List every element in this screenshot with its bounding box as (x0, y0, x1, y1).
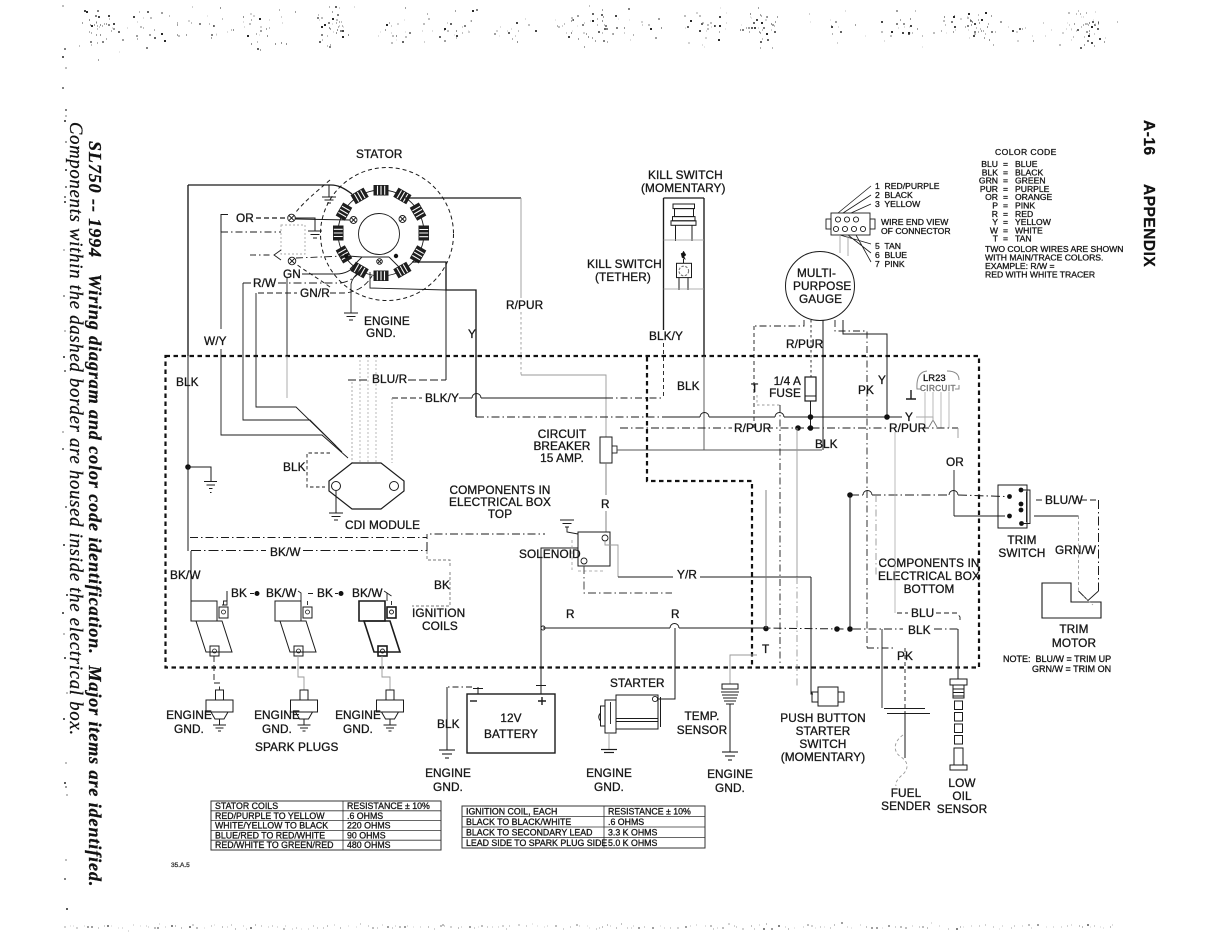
svg-text:220 OHMS: 220 OHMS (347, 821, 391, 831)
svg-text:R/W: R/W (253, 276, 277, 290)
svg-text:SL750 -- 1994 Wiring diagram: SL750 -- 1994 Wiring diagram and color c… (85, 141, 105, 887)
ENGINE GND. plug2 (254, 708, 300, 736)
stator coils (12) (333, 185, 429, 281)
svg-text:SENSOR: SENSOR (677, 723, 727, 737)
wire BLK down from stator (left) (187, 185, 189, 356)
fuel sender connection bars (884, 709, 930, 714)
spark plug 3 (377, 690, 404, 731)
wire R/PUR drop right (957, 428, 959, 438)
CDI module body (329, 463, 404, 509)
wire node to node inside stator (348, 256, 362, 257)
TOP MIDDLE: kill switch, gauge, connector, color code (506, 147, 1123, 648)
svg-text:Y: Y (878, 373, 886, 387)
stator coil ring (338, 190, 424, 276)
TRIM MOTOR label (1052, 622, 1096, 650)
svg-text:BLK: BLK (437, 717, 460, 731)
multi purpose gauge (786, 252, 855, 321)
svg-text:=: = (1003, 234, 1008, 244)
bracket group1 (222, 591, 301, 605)
wire Y/R from solenoid (605, 541, 618, 577)
wire BK/W upper dash-dot (190, 534, 545, 538)
STATOR GROUP (188, 147, 521, 417)
svg-text:BLU/R: BLU/R (372, 372, 407, 386)
svg-text:BLU: BLU (911, 606, 934, 620)
wire GRN/W (1034, 515, 1079, 517)
wire BLK down to bus (849, 495, 851, 629)
svg-text:STARTER: STARTER (610, 676, 665, 690)
wire pin2 to stator node (296, 256, 344, 258)
R/PUR bus dots (795, 425, 801, 431)
BK / BK/W group 1 (231, 586, 297, 600)
svg-text:STATOR COILS: STATOR COILS (215, 801, 278, 811)
svg-text:.6 OHMS: .6 OHMS (347, 811, 383, 821)
svg-text:SENDER: SENDER (881, 799, 931, 813)
svg-text:(TETHER): (TETHER) (595, 270, 651, 284)
MARGIN TEXT (65, 120, 1157, 887)
svg-text:PUSH BUTTON: PUSH BUTTON (780, 711, 865, 725)
OR junction dot (847, 492, 853, 498)
svg-text:R: R (566, 607, 575, 621)
wire fuse to Y bus (810, 401, 812, 428)
svg-text:TAN: TAN (1015, 234, 1032, 244)
svg-text:OR: OR (946, 455, 964, 469)
OR connector bracket (221, 215, 228, 233)
svg-text:COLOR CODE: COLOR CODE (995, 147, 1057, 157)
ENGINE GND. temp (707, 767, 753, 795)
ENGINE GND. starter (586, 766, 632, 794)
wire W/Y vertical (220, 232, 222, 356)
RIGHT SIDE (881, 485, 1111, 816)
TRIM SWITCH label (998, 533, 1045, 560)
wire PK from gauge (835, 320, 867, 648)
ignition coil 3 (359, 593, 400, 656)
connector pin labels 5-7 (875, 241, 907, 269)
svg-text:R/PUR: R/PUR (889, 421, 926, 435)
svg-text:BATTERY: BATTERY (484, 727, 538, 741)
stator outer dashed housing (321, 168, 454, 301)
wire R/PUR bus (620, 427, 958, 429)
push button switch body (812, 687, 844, 706)
wire Y from stator right (412, 262, 476, 417)
bracket group2 (308, 591, 387, 601)
wire pin1 to ground (295, 218, 315, 231)
wire BK/W row (191, 538, 427, 551)
connector body (wire end view) (826, 213, 875, 235)
battery plus sign (538, 697, 546, 705)
wire R/W vertical (242, 283, 244, 356)
LR23 wires down (925, 392, 949, 428)
wire R/PUR to breaker (521, 375, 606, 437)
svg-text:SOLENOID: SOLENOID (519, 547, 581, 561)
connector pin 1 (288, 214, 296, 222)
svg-text:3.3 K OHMS: 3.3 K OHMS (608, 828, 658, 838)
engine ground below stator (344, 313, 358, 320)
svg-text:T: T (751, 381, 758, 395)
PUSH BUTTON STARTER SWITCH label (780, 711, 865, 764)
svg-text:BK/W: BK/W (352, 586, 383, 600)
wire R/PUR vertical from stator (520, 198, 522, 298)
svg-text:OF CONNECTOR: OF CONNECTOR (881, 226, 951, 236)
svg-text:ENGINE: ENGINE (707, 767, 753, 781)
fuel sender float wave (895, 735, 907, 786)
wire GN/R vertical (255, 293, 257, 356)
svg-text:PURPOSE: PURPOSE (793, 279, 851, 293)
ignition coil resistance table (462, 806, 705, 848)
junction dot group2 (339, 591, 344, 596)
wire battery plus up to solenoid (541, 548, 578, 684)
svg-text:MULTI-: MULTI- (797, 266, 836, 280)
wire Y from gauge (843, 320, 887, 417)
svg-text:TEMP.: TEMP. (684, 709, 719, 723)
svg-text:ENGINE: ENGINE (586, 766, 632, 780)
svg-text:GRN/W: GRN/W (1055, 543, 1097, 557)
svg-text:5.0 K OHMS: 5.0 K OHMS (608, 838, 658, 848)
trim switch contact bracket (1021, 490, 1030, 524)
solenoid ground (560, 520, 578, 534)
CDI mount hole right (390, 482, 399, 491)
svg-text:GND.: GND. (174, 722, 204, 736)
svg-text:TRIM: TRIM (1007, 533, 1036, 547)
svg-text:SWITCH: SWITCH (998, 546, 1045, 560)
svg-text:GAUGE: GAUGE (799, 292, 842, 306)
svg-text:SWITCH: SWITCH (799, 737, 846, 751)
svg-text:90 OHMS: 90 OHMS (347, 830, 386, 840)
svg-text:ENGINE: ENGINE (335, 708, 381, 722)
spark plug 1 (206, 690, 233, 731)
wire T to temp sensor (730, 655, 757, 684)
LOW OIL SENSOR label (937, 776, 987, 816)
svg-text:BLK: BLK (815, 437, 838, 451)
svg-text:A-16: A-16 (1140, 120, 1157, 156)
svg-text:LEAD SIDE TO SPARK PLUG SIDE: LEAD SIDE TO SPARK PLUG SIDE (466, 838, 607, 848)
WIRE END VIEW OF CONNECTOR label (881, 217, 951, 236)
svg-text:KILL SWITCH: KILL SWITCH (587, 257, 662, 271)
battery plus terminal (536, 684, 546, 694)
stator pin right (399, 216, 406, 223)
wire GN/R to CDI (256, 356, 336, 446)
svg-text:BLACK TO SECONDARY LEAD: BLACK TO SECONDARY LEAD (466, 828, 592, 838)
R bus dots (763, 626, 769, 632)
stator housing tail to connector (296, 180, 330, 212)
wire battery minus to ground (447, 686, 472, 688)
wire R/PUR down to bus (753, 326, 755, 428)
circuit breaker body (600, 437, 612, 463)
stator coils resistance table (211, 801, 441, 850)
svg-text:W/Y: W/Y (204, 334, 227, 348)
wire riser vertical mid (765, 490, 767, 628)
svg-text:ENGINE: ENGINE (254, 708, 300, 722)
ground temp sensor (722, 752, 738, 760)
svg-text:RED/WHITE TO GREEN/RED: RED/WHITE TO GREEN/RED (215, 840, 333, 850)
svg-text:ELECTRICAL BOX: ELECTRICAL BOX (878, 569, 980, 583)
connector pin leaders top (838, 186, 871, 213)
wire T dashed (757, 395, 780, 405)
ELECTRICAL BOX (166, 290, 1006, 712)
svg-text:T: T (993, 234, 999, 244)
wire BLK/Y bus (392, 397, 422, 399)
wire BLK kill switch into box (617, 356, 822, 450)
CDI ground stub (335, 491, 337, 513)
svg-text:CDI MODULE: CDI MODULE (345, 518, 420, 532)
wire into chevron (250, 254, 272, 256)
ignition coil 1 (191, 591, 232, 656)
svg-text:OIL: OIL (952, 789, 972, 803)
electrical box internal divider (647, 357, 752, 667)
svg-text:LR23: LR23 (923, 373, 946, 384)
wire R/W (243, 268, 362, 283)
junction dot BLK lower (847, 626, 853, 632)
svg-text:RESISTANCE ± 10%: RESISTANCE ± 10% (608, 807, 691, 817)
spark plug 2 (291, 690, 318, 731)
svg-text:GND.: GND. (262, 722, 292, 736)
svg-text:MOTOR: MOTOR (1052, 636, 1096, 650)
wire BLU (894, 432, 896, 613)
wire Y/R (618, 576, 811, 578)
wire fuel sender feed (881, 629, 883, 708)
wire Y/R down to push button (811, 577, 813, 694)
engine ground stub near stator top (322, 185, 336, 203)
chevron into connector (274, 250, 281, 260)
wire BLK/Y dashed down (663, 343, 665, 398)
node dot left (344, 254, 348, 258)
wire BLK continues to junction (187, 356, 189, 467)
wire GN/R (258, 276, 372, 293)
svg-text:COMPONENTS IN: COMPONENTS IN (879, 556, 980, 570)
KILL SWITCH (TETHER) label (587, 257, 662, 284)
wire junction to ground (188, 467, 211, 481)
svg-text:GND.: GND. (433, 780, 463, 794)
wire R/PUR from stator top right (405, 197, 521, 199)
wire stator top-left (188, 185, 352, 194)
electrical box dashed border (166, 356, 980, 668)
wire down from R/PUR dot (796, 428, 798, 577)
fuel sender wire down (904, 712, 906, 758)
wire BLK bus lower (853, 628, 958, 630)
battery minus terminal (473, 687, 483, 694)
svg-text:BLACK TO BLACK/WHITE: BLACK TO BLACK/WHITE (466, 817, 571, 827)
trim switch pins (1007, 488, 1024, 526)
wire W/Y horizontal (221, 231, 281, 233)
svg-text:480 OHMS: 480 OHMS (347, 840, 391, 850)
svg-text:FUSE: FUSE (769, 386, 801, 400)
harness exit funnel (350, 257, 401, 269)
wire BLK down to BK/W row (187, 467, 189, 551)
wire W/Y to CDI (221, 356, 348, 458)
ground in box left (204, 482, 217, 493)
svg-text:GND.: GND. (366, 326, 396, 340)
CDI mount hole left (332, 482, 341, 491)
svg-text:SENSOR: SENSOR (937, 802, 987, 816)
wire harness drop (370, 272, 446, 290)
12V battery (467, 694, 555, 753)
1/4 A FUSE label (769, 374, 801, 400)
wire GN vertical (286, 278, 288, 356)
wire Y-BLU/R riser (445, 290, 447, 380)
wire breaker to solenoid (605, 463, 607, 532)
trim motor body (1042, 583, 1101, 618)
svg-text:3 YELLOW: 3 YELLOW (875, 199, 921, 209)
wire OR lower to trim switch (954, 515, 1005, 517)
wire to engine ground below stator (351, 268, 362, 313)
svg-text:GRN/W = TRIM ON: GRN/W = TRIM ON (1032, 664, 1111, 674)
svg-text:PK: PK (858, 383, 874, 397)
svg-text:12V: 12V (500, 711, 521, 725)
wire riser dash-dot to push button (796, 577, 798, 687)
svg-text:15 AMP.: 15 AMP. (540, 451, 584, 465)
ground battery (439, 750, 455, 758)
svg-text:STATOR: STATOR (356, 147, 402, 161)
wire OR vertical (953, 470, 955, 516)
wire R bus (543, 627, 758, 629)
wires dotted into CDI top (360, 356, 376, 463)
svg-text:NOTE: BLU/W = TRIM UP: NOTE: BLU/W = TRIM UP (1003, 654, 1111, 664)
ENGINE GND. battery (425, 766, 471, 794)
svg-text:R/PUR: R/PUR (506, 298, 543, 312)
COMPONENTS IN ELECTRICAL BOX BOTTOM label (878, 556, 980, 596)
svg-text:LOW: LOW (948, 776, 976, 790)
wire pin1 to stator pin (295, 219, 350, 220)
COMPONENTS IN ELECTRICAL BOX TOP label (449, 483, 551, 521)
trim motor V notch (1079, 591, 1099, 601)
wire R/PUR from gauge left (754, 320, 804, 326)
svg-text:BK: BK (231, 586, 247, 600)
svg-text:R/PUR: R/PUR (786, 337, 823, 351)
wire OR bus to trim switch (850, 495, 1005, 497)
stator pin bottom (377, 259, 383, 265)
wire coil3 to plug3 (382, 656, 390, 690)
wire GN dotted to CDI (286, 356, 288, 398)
wire R dash-dot from solenoid (584, 566, 672, 593)
trim switch body (998, 485, 1027, 528)
svg-text:.6 OHMS: .6 OHMS (608, 817, 644, 827)
COLOR CODE legend (979, 147, 1124, 280)
svg-text:RED WITH WHITE TRACER: RED WITH WHITE TRACER (985, 270, 1095, 280)
TABLES (211, 801, 705, 850)
svg-text:BLU/W: BLU/W (1045, 493, 1084, 507)
svg-text:BLK: BLK (283, 460, 306, 474)
arrow on LR23 wire (929, 420, 937, 427)
solenoid body (578, 532, 610, 566)
wire coil1 to plug1 (214, 656, 220, 690)
wire coil2 to plug2 (298, 656, 304, 690)
svg-text:GN: GN (283, 267, 301, 281)
ENGINE GND. plug3 (335, 708, 381, 736)
svg-text:BLK: BLK (176, 375, 199, 389)
LR23 circuit bubble (917, 371, 959, 389)
IGNITION COILS label (412, 606, 465, 633)
wire BK/W left vertical (190, 551, 192, 601)
stator pin left (350, 217, 357, 224)
junction dot BLK (185, 464, 191, 470)
BOTTOM COMPONENTS (166, 490, 866, 795)
svg-text:GND.: GND. (715, 781, 745, 795)
svg-text:RESISTANCE ± 10%: RESISTANCE ± 10% (347, 801, 430, 811)
wire BLU/R (348, 379, 446, 381)
svg-text:APPENDIX: APPENDIX (1140, 184, 1157, 267)
wire Y bus (476, 416, 668, 418)
wire BK hook (412, 551, 450, 606)
starter ground (608, 733, 610, 749)
svg-text:R: R (671, 607, 680, 621)
connector pin 2 (288, 257, 296, 265)
svg-text:(MOMENTARY): (MOMENTARY) (641, 181, 726, 195)
connector pin leaders bottom (840, 235, 871, 262)
ENGINE GND. plug1 (166, 708, 212, 736)
starter motor (599, 695, 661, 733)
svg-text:STARTER: STARTER (796, 724, 851, 738)
svg-text:KILL SWITCH: KILL SWITCH (648, 168, 723, 182)
battery minus sign (470, 700, 477, 702)
svg-text:ENGINE: ENGINE (425, 766, 471, 780)
svg-text:Y/R: Y/R (677, 568, 697, 582)
svg-text:7 PINK: 7 PINK (875, 259, 905, 269)
TEMP. SENSOR label (677, 709, 727, 737)
FUEL SENDER label (881, 786, 931, 813)
dashed bracket BLK to CDI (307, 453, 330, 487)
kill switch momentary button (664, 204, 705, 241)
svg-text:BK/W: BK/W (170, 568, 201, 582)
ENGINE GND. label (364, 314, 410, 340)
svg-text:35.A.5: 35.A.5 (171, 862, 190, 869)
wire BLU/R drop to CDI (351, 382, 353, 463)
KILL SWITCH (MOMENTARY) label (641, 168, 726, 195)
svg-text:ENGINE: ENGINE (166, 708, 212, 722)
svg-text:IGNITION COIL, EACH: IGNITION COIL, EACH (466, 807, 557, 817)
svg-text:BLUE/RED TO RED/WHITE: BLUE/RED TO RED/WHITE (215, 830, 325, 840)
ignition coil 2 (275, 601, 316, 656)
wire GN (302, 264, 356, 274)
svg-text:BOTTOM: BOTTOM (904, 582, 955, 596)
wire R/W to CDI (243, 356, 342, 452)
svg-text:IGNITION: IGNITION (412, 606, 465, 620)
low oil sensor (950, 679, 967, 770)
svg-text:R: R (601, 497, 610, 511)
svg-text:TOP: TOP (488, 507, 512, 521)
ground below CDI (329, 513, 343, 520)
svg-text:BLK/Y: BLK/Y (425, 391, 459, 405)
wire gauge to fuse (dashed) (810, 320, 812, 377)
svg-text:GND.: GND. (594, 780, 624, 794)
svg-text:(MOMENTARY): (MOMENTARY) (781, 750, 866, 764)
svg-text:BLK: BLK (908, 623, 931, 637)
wires connector to gauge (840, 235, 848, 256)
fuse body (805, 377, 816, 401)
svg-text:BK/W: BK/W (266, 586, 297, 600)
wire PK down to fuel sender (904, 648, 906, 712)
connector pin labels 1-3 (875, 181, 940, 209)
svg-text:BLK/Y: BLK/Y (649, 329, 683, 343)
wire R down to starter (658, 628, 675, 699)
svg-text:BLK: BLK (677, 379, 700, 393)
svg-text:BK: BK (317, 586, 333, 600)
svg-text:T: T (762, 642, 769, 656)
svg-text:FUEL: FUEL (891, 786, 922, 800)
svg-text:BK: BK (434, 578, 450, 592)
circuit breaker tab (612, 446, 617, 453)
svg-text:RED/PURPLE TO YELLOW: RED/PURPLE TO YELLOW (215, 811, 325, 821)
NOTE text (1003, 654, 1111, 674)
kill switch tether symbol (664, 251, 705, 290)
wire OR to pin 1 (256, 217, 286, 219)
BK / BK/W group 2 (317, 586, 383, 600)
connector housing (281, 225, 305, 254)
stator inner bore (359, 214, 400, 255)
dash-dot riser mid (875, 495, 877, 577)
perpendicular mark (906, 390, 916, 399)
wire BLK to low oil sensor (957, 629, 959, 679)
junction dot group1 (255, 591, 260, 596)
svg-text:SPARK PLUGS: SPARK PLUGS (255, 740, 339, 754)
